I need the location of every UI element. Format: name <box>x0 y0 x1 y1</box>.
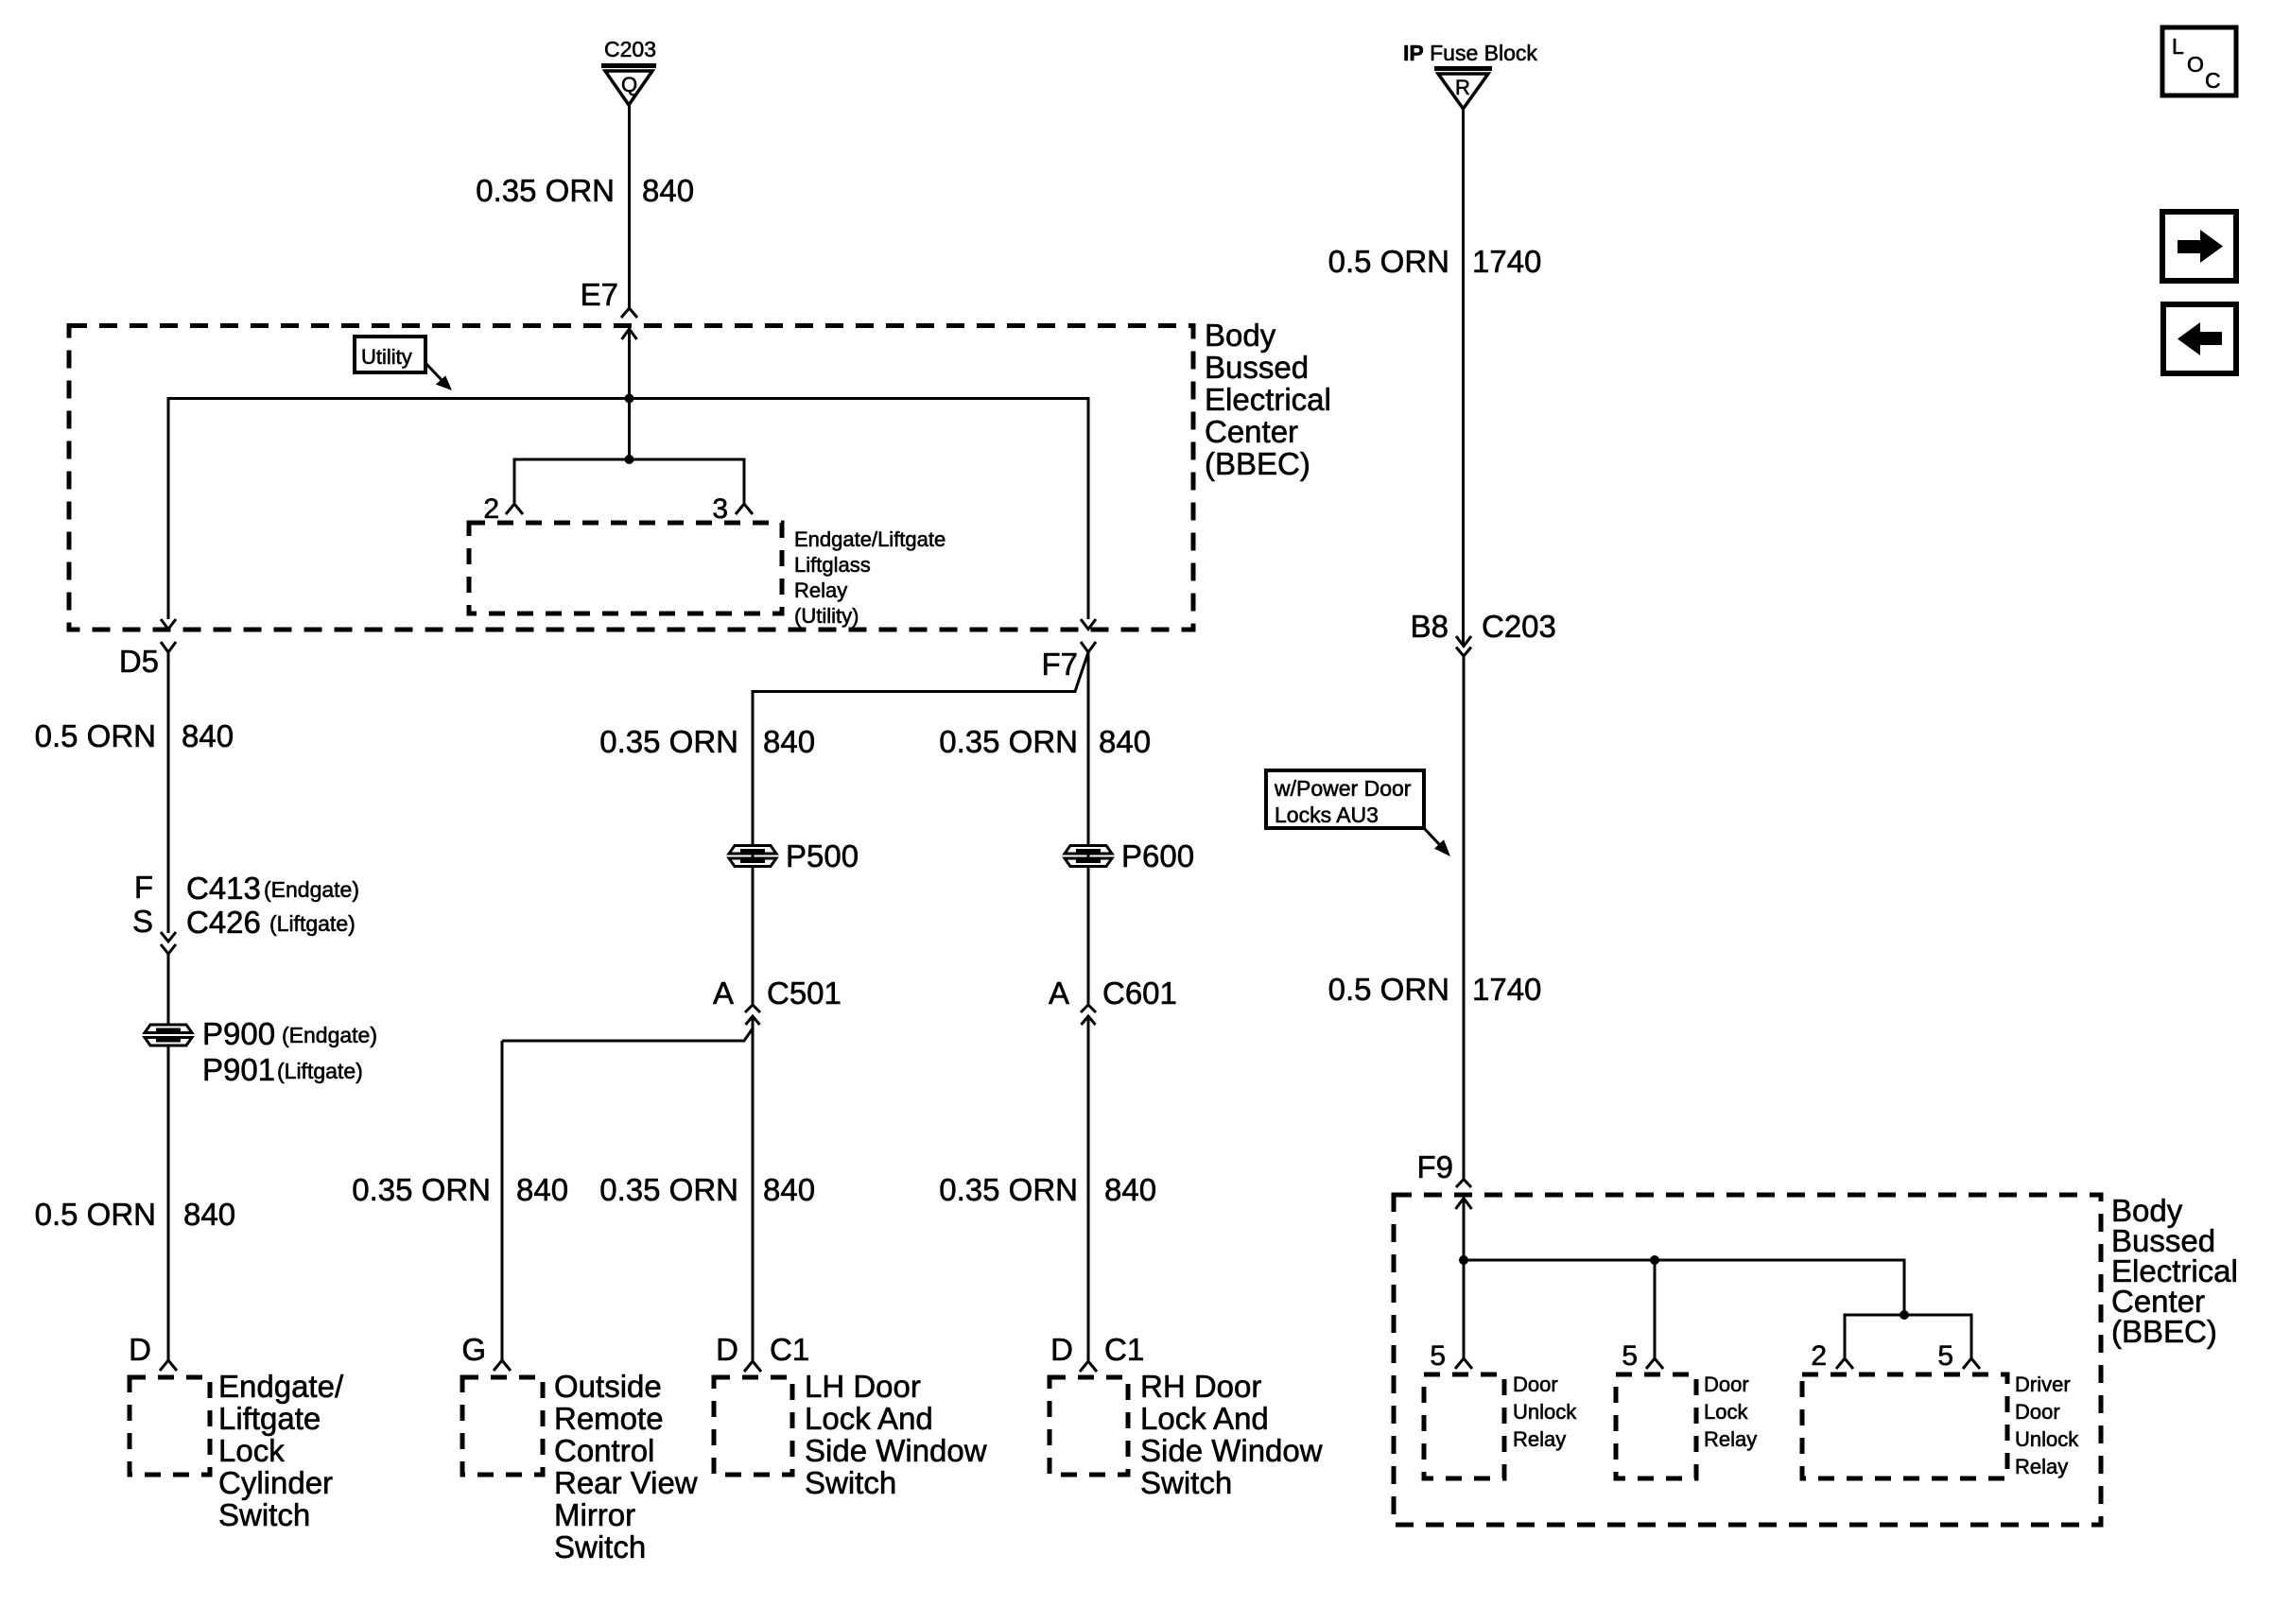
splice P600 <box>1065 838 1194 873</box>
svg-text:Locks AU3: Locks AU3 <box>1275 803 1379 827</box>
Endgate/Liftgate Lock Cylinder Switch box <box>130 1377 210 1475</box>
label 0.5 ORN 1740 (top right) <box>1328 244 1542 279</box>
label 0.5 ORN 840 (lower left) <box>35 1197 235 1232</box>
svg-text:Cylinder: Cylinder <box>218 1465 333 1500</box>
pin D C1 connector LH switch <box>716 1332 809 1372</box>
svg-text:F: F <box>134 870 153 905</box>
wire E7 arrow into BBEC <box>622 329 637 459</box>
svg-text:Body: Body <box>1205 318 1276 353</box>
svg-text:0.35 ORN: 0.35 ORN <box>939 724 1078 759</box>
svg-text:Relay: Relay <box>1704 1427 1757 1451</box>
svg-text:Center: Center <box>1205 414 1298 449</box>
svg-text:(Endgate): (Endgate) <box>264 877 359 902</box>
wire C203 to E7 <box>628 104 631 307</box>
label 0.35 ORN 840 (LH column) <box>599 1172 815 1207</box>
svg-text:A: A <box>1049 976 1069 1011</box>
svg-text:1740: 1740 <box>1472 972 1541 1007</box>
svg-text:Lock: Lock <box>1704 1400 1748 1424</box>
svg-text:B8: B8 <box>1411 609 1449 644</box>
svg-text:840: 840 <box>763 724 815 759</box>
svg-text:Mirror: Mirror <box>554 1497 635 1532</box>
svg-text:Rear View: Rear View <box>554 1465 698 1500</box>
svg-text:Relay: Relay <box>2015 1455 2068 1478</box>
svg-text:D5: D5 <box>119 644 159 679</box>
wire IP fuse block to B8 <box>1462 108 1465 646</box>
svg-text:C601: C601 <box>1102 976 1177 1011</box>
svg-text:Liftglass: Liftglass <box>794 553 871 577</box>
svg-text:D: D <box>716 1332 738 1367</box>
pin D C1 connector RH switch <box>1050 1332 1144 1372</box>
svg-text:P901: P901 <box>202 1052 275 1087</box>
svg-text:Switch: Switch <box>1140 1465 1232 1500</box>
svg-text:A: A <box>713 976 734 1011</box>
svg-text:840: 840 <box>763 1172 815 1207</box>
svg-text:840: 840 <box>183 1197 235 1232</box>
svg-text:0.35 ORN: 0.35 ORN <box>476 173 615 208</box>
label Body Bussed Electrical Center (BBEC) top <box>1205 318 1331 481</box>
wire C601 to RH switch <box>1087 1016 1090 1361</box>
svg-text:Switch: Switch <box>554 1529 646 1564</box>
svg-text:840: 840 <box>516 1172 568 1207</box>
connector C413 (Endgate) / C426 (Liftgate) F S <box>132 870 359 1026</box>
label Endgate/Liftgate Liftglass Relay (Utility) <box>794 527 946 628</box>
svg-text:Relay: Relay <box>794 579 847 602</box>
connector C203 triangle Q <box>601 37 656 105</box>
svg-text:F9: F9 <box>1416 1149 1453 1184</box>
svg-text:Unlock: Unlock <box>2015 1427 2079 1451</box>
wire F9 arrow into BBEC and bus <box>1456 1199 1972 1359</box>
svg-text:G: G <box>461 1332 486 1367</box>
svg-text:Control: Control <box>554 1433 654 1468</box>
svg-text:0.35 ORN: 0.35 ORN <box>599 724 738 759</box>
w/Power Door Locks AU3 callout <box>1266 770 1450 856</box>
svg-text:Door: Door <box>1704 1373 1749 1396</box>
svg-text:L: L <box>2172 34 2184 59</box>
svg-text:Door: Door <box>2015 1400 2060 1424</box>
label 0.35 ORN 840 (mirror column) <box>352 1172 568 1207</box>
svg-text:P600: P600 <box>1121 838 1194 873</box>
svg-text:Side Window: Side Window <box>1140 1433 1323 1468</box>
svg-text:RH Door: RH Door <box>1140 1369 1261 1404</box>
svg-text:F7: F7 <box>1041 647 1078 682</box>
label Door Unlock Relay <box>1513 1373 1577 1451</box>
LOC legend box <box>2162 27 2236 95</box>
svg-text:0.35 ORN: 0.35 ORN <box>939 1172 1078 1207</box>
svg-text:Remote: Remote <box>554 1401 664 1436</box>
svg-text:1740: 1740 <box>1472 244 1541 279</box>
pin 3 connector <box>712 493 753 525</box>
svg-text:Electrical: Electrical <box>1205 382 1331 417</box>
svg-text:(BBEC): (BBEC) <box>2111 1314 2217 1349</box>
Utility callout <box>355 337 452 390</box>
svg-text:C1: C1 <box>770 1332 809 1367</box>
svg-text:5: 5 <box>1937 1340 1953 1372</box>
label 0.35 ORN 840 (P500 branch) <box>599 724 815 759</box>
connector D5 <box>119 642 176 679</box>
pin 2 connector driver door unlock relay <box>1811 1340 1853 1372</box>
svg-text:Door: Door <box>1513 1373 1558 1396</box>
pin 5 connector driver door unlock relay <box>1937 1340 1980 1372</box>
svg-text:Lock: Lock <box>218 1433 285 1468</box>
svg-text:840: 840 <box>642 173 694 208</box>
svg-text:C203: C203 <box>1482 609 1556 644</box>
arrow at F7 inside box <box>1081 619 1096 630</box>
label Outside Remote Control Rear View Mirror Switch <box>554 1369 698 1564</box>
label LH Door Lock And Side Window Switch <box>805 1369 987 1500</box>
svg-text:0.5 ORN: 0.5 ORN <box>1328 972 1449 1007</box>
svg-text:C203: C203 <box>604 37 656 61</box>
splice P500 <box>729 838 859 873</box>
arrow at D5 inside box <box>161 619 176 630</box>
pin G connector mirror switch <box>461 1332 511 1371</box>
bus wire inside BBEC <box>168 394 1088 620</box>
svg-text:E7: E7 <box>581 277 618 312</box>
connector B8 C203 <box>1411 609 1556 656</box>
wire F7 branch to P500 column <box>753 652 1088 1004</box>
BBEC top box <box>69 326 1193 631</box>
forward arrow legend box <box>2162 212 2236 281</box>
svg-text:Bussed: Bussed <box>1205 350 1309 385</box>
wire C501 to LH switch with branch to mirror switch <box>502 1016 753 1361</box>
svg-text:5: 5 <box>1622 1340 1638 1372</box>
svg-text:(BBEC): (BBEC) <box>1205 446 1310 481</box>
svg-text:S: S <box>132 904 153 939</box>
back arrow legend box <box>2163 304 2236 373</box>
label Endgate/Liftgate Lock Cylinder Switch <box>218 1369 344 1532</box>
svg-text:w/Power Door: w/Power Door <box>1274 776 1412 801</box>
svg-text:IP Fuse Block: IP Fuse Block <box>1403 41 1537 65</box>
label 0.35 ORN 840 (RH column) <box>939 1172 1156 1207</box>
svg-text:Driver: Driver <box>2015 1373 2071 1396</box>
svg-text:840: 840 <box>182 718 234 753</box>
connector IP Fuse Block triangle R <box>1403 41 1537 109</box>
label Body Bussed Electrical Center (BBEC) bottom <box>2111 1193 2238 1349</box>
svg-text:Lock And: Lock And <box>1140 1401 1269 1436</box>
svg-text:(Utility): (Utility) <box>794 604 859 628</box>
svg-text:R: R <box>1455 76 1470 99</box>
RH Door Lock And Side Window Switch box <box>1050 1377 1128 1475</box>
svg-text:C1: C1 <box>1104 1332 1144 1367</box>
label 0.35 ORN 840 (P600 branch) <box>939 724 1151 759</box>
BBEC bottom box <box>1394 1195 2101 1525</box>
wire B8 to F9 <box>1463 656 1466 1179</box>
svg-text:P900: P900 <box>202 1016 275 1051</box>
svg-text:Outside: Outside <box>554 1369 662 1404</box>
svg-text:D: D <box>1050 1332 1073 1367</box>
svg-text:C: C <box>2205 68 2221 93</box>
svg-text:Utility: Utility <box>361 345 412 369</box>
LH Door Lock And Side Window Switch box <box>714 1377 792 1475</box>
svg-text:0.35 ORN: 0.35 ORN <box>599 1172 738 1207</box>
svg-text:2: 2 <box>1811 1340 1827 1372</box>
label 0.5 ORN 1740 (lower right) <box>1328 972 1542 1007</box>
svg-text:5: 5 <box>1430 1340 1446 1372</box>
connector C601 pin A <box>1049 976 1177 1025</box>
svg-text:(Liftgate): (Liftgate) <box>277 1059 363 1083</box>
Door Lock Relay box <box>1616 1374 1696 1478</box>
Outside Remote Control Rear View Mirror Switch box <box>462 1377 543 1475</box>
Door Unlock Relay box <box>1424 1374 1504 1478</box>
label Door Lock Relay <box>1704 1373 1757 1451</box>
svg-text:Side Window: Side Window <box>805 1433 987 1468</box>
svg-text:C413: C413 <box>186 871 261 906</box>
pin 2 connector <box>483 493 523 525</box>
svg-text:C426: C426 <box>186 905 261 940</box>
pin 5 connector door lock relay <box>1622 1340 1663 1372</box>
svg-text:Lock And: Lock And <box>805 1401 933 1436</box>
svg-text:0.5 ORN: 0.5 ORN <box>35 1197 156 1232</box>
svg-text:Switch: Switch <box>805 1465 896 1500</box>
connector F7 <box>1041 642 1096 682</box>
pin D connector endgate switch <box>129 1332 177 1371</box>
label RH Door Lock And Side Window Switch <box>1140 1369 1323 1500</box>
svg-text:(Liftgate): (Liftgate) <box>269 911 356 936</box>
svg-text:0.5 ORN: 0.5 ORN <box>35 718 156 753</box>
svg-text:C501: C501 <box>767 976 842 1011</box>
svg-text:0.5 ORN: 0.5 ORN <box>1328 244 1449 279</box>
svg-text:2: 2 <box>483 493 499 525</box>
Driver Door Unlock Relay box <box>1802 1374 2007 1478</box>
svg-text:P500: P500 <box>786 838 859 873</box>
svg-text:3: 3 <box>712 493 728 525</box>
svg-text:Endgate/Liftgate: Endgate/Liftgate <box>794 527 946 551</box>
connector F9 <box>1416 1149 1471 1187</box>
label 0.5 ORN 840 (D5 wire) <box>35 718 234 753</box>
svg-text:Unlock: Unlock <box>1513 1400 1577 1424</box>
svg-text:0.35 ORN: 0.35 ORN <box>352 1172 491 1207</box>
svg-text:840: 840 <box>1099 724 1151 759</box>
connector C501 pin A <box>713 976 842 1025</box>
svg-text:Relay: Relay <box>1513 1427 1566 1451</box>
svg-text:O: O <box>2187 52 2204 77</box>
svg-text:840: 840 <box>1104 1172 1156 1207</box>
wire P900 to endgate switch <box>167 1045 170 1361</box>
svg-text:(Endgate): (Endgate) <box>282 1023 377 1047</box>
pin 5 connector door unlock relay <box>1430 1340 1472 1372</box>
svg-text:Q: Q <box>621 73 637 96</box>
svg-text:Liftgate: Liftgate <box>218 1401 321 1436</box>
splice P900/P901 <box>145 1016 377 1087</box>
connector E7 <box>581 277 637 318</box>
label 0.35 ORN 840 (C203 wire) <box>476 173 694 208</box>
svg-text:LH Door: LH Door <box>805 1369 921 1404</box>
junction node to relay bracket <box>625 455 634 464</box>
Endgate/Liftgate Liftglass Relay (Utility) box <box>469 523 782 613</box>
svg-text:D: D <box>129 1332 151 1367</box>
relay bracket wires <box>514 459 744 503</box>
label Driver Door Unlock Relay <box>2015 1373 2079 1478</box>
wire F7 to P600 to C601 <box>1087 652 1090 1004</box>
wire D5 to F/S connector <box>167 652 170 933</box>
svg-text:Endgate/: Endgate/ <box>218 1369 344 1404</box>
svg-text:Switch: Switch <box>218 1497 310 1532</box>
